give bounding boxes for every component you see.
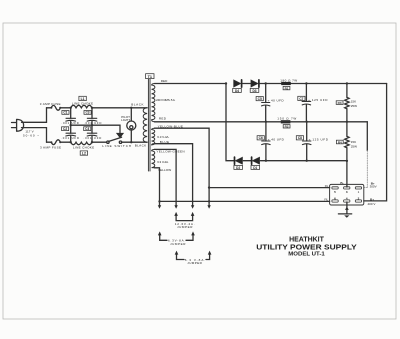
svg-text:JUMPER: JUMPER — [187, 261, 202, 265]
diode D2 — [234, 157, 243, 170]
resistor R3 (15K 25W) — [336, 84, 357, 122]
svg-text:RED: RED — [161, 79, 168, 83]
capacitor C8 — [296, 122, 328, 161]
wire: B+400 right vertical (top rail to pin 2) — [364, 84, 387, 201]
wire: bottom rail to socket pin 6 — [160, 200, 330, 202]
svg-text:25W: 25W — [351, 104, 357, 108]
svg-text:MODEL UT-1: MODEL UT-1 — [288, 252, 325, 258]
wire: left filter vertical — [70, 108, 72, 142]
wire: B- vertical to socket pin 3 — [346, 161, 348, 187]
capacitor C4 — [84, 127, 102, 140]
terminal arrow (YELLOW post) — [158, 205, 161, 208]
label 6.3V-4A (winding 2) — [157, 135, 169, 139]
svg-text:400 V: 400 V — [368, 202, 376, 206]
wire: YELLOW-GREEN lead down — [155, 149, 177, 206]
svg-text:C3: C3 — [85, 111, 89, 115]
resistor R2 (150 ohm 7W) — [277, 116, 296, 128]
wire: B+300 vertical solid part — [366, 122, 368, 151]
node: pilot light bottom — [130, 141, 132, 143]
label RED (240V top lead) — [161, 79, 168, 83]
wire: right filter vertical — [91, 108, 93, 142]
svg-text:25W: 25W — [351, 144, 357, 148]
node A: RED top / diode strings — [225, 82, 227, 84]
jumper 3 arrows and label (6.3V-8A) — [175, 251, 212, 265]
svg-text:BLACK: BLACK — [131, 102, 143, 106]
node: bottom right filter — [91, 141, 93, 143]
svg-text:C7: C7 — [299, 97, 303, 101]
node: mid rail / C7 C8 — [306, 121, 308, 123]
label YELLOW — [158, 168, 171, 172]
svg-text:LINE CHOKE: LINE CHOKE — [73, 145, 94, 149]
node: B- row / R4 — [346, 160, 348, 162]
diode D3 — [250, 80, 259, 93]
svg-text:D1: D1 — [253, 166, 257, 170]
label B- — [340, 181, 343, 185]
svg-text:3 AMP FUSE: 3 AMP FUSE — [40, 145, 61, 149]
svg-text:B-: B- — [340, 181, 343, 185]
node: pilot light top — [130, 107, 132, 109]
svg-text:T1: T1 — [148, 75, 152, 79]
node: top rail / C7 — [305, 82, 307, 84]
label B+ 400 V — [368, 198, 376, 206]
line switch SW1 — [102, 137, 131, 148]
svg-text:L1: L1 — [81, 97, 85, 101]
svg-text:BLACK: BLACK — [135, 144, 147, 148]
resistor R4 (15K 25W) — [336, 122, 357, 161]
svg-text:+ 125 UFD: + 125 UFD — [308, 98, 328, 102]
junction dots — [70, 82, 349, 202]
svg-text:240 V RMS .5 A.: 240 V RMS .5 A. — [156, 98, 176, 102]
label RED (240V bottom lead) — [159, 116, 167, 120]
svg-text:D4: D4 — [235, 89, 239, 93]
wire: RED top lead / top rail to doubler — [155, 83, 227, 85]
output socket SO1 — [330, 184, 364, 205]
svg-text:C5: C5 — [258, 97, 262, 101]
node: bottom left filter — [70, 141, 72, 143]
wire: filter midpoint rail to chassis arrow — [71, 125, 120, 133]
svg-text:C6: C6 — [259, 136, 263, 140]
label BLUE — [160, 140, 169, 144]
transformer T1 primary winding — [143, 108, 147, 142]
svg-text:+ 40 UFD: + 40 UFD — [268, 98, 285, 102]
node: YELLOW / bottom rail — [158, 200, 160, 202]
line choke L2 — [71, 142, 92, 145]
svg-text:LINE CHOKE: LINE CHOKE — [72, 102, 93, 106]
diode D1 — [251, 157, 260, 170]
wire: D4 to D3 — [242, 83, 250, 85]
svg-text:LINE SWITCH: LINE SWITCH — [102, 144, 131, 148]
svg-text:R2: R2 — [285, 125, 289, 129]
label B+ 300V — [370, 181, 377, 188]
capacitor C3 — [84, 111, 101, 126]
svg-text:R4: R4 — [338, 140, 342, 144]
node: top rail / R3 — [346, 82, 348, 84]
node: choke/C3 top — [91, 107, 93, 109]
AC plug P1 — [12, 119, 24, 131]
svg-text:15K: 15K — [351, 140, 356, 144]
capacitor C6 — [257, 122, 284, 161]
T1 secondary winding 3 (6.3V-4A lower) — [152, 149, 155, 167]
svg-text:RED: RED — [159, 116, 167, 120]
transformer T1 designator box — [146, 74, 154, 79]
svg-text:3 AMP FUSE: 3 AMP FUSE — [40, 102, 61, 106]
capacitor C1 — [61, 111, 78, 126]
node: B- row / C8 — [306, 160, 308, 162]
svg-text:180 Ω 7W: 180 Ω 7W — [280, 79, 297, 83]
wire: bottom rail filter to switch — [92, 141, 107, 143]
pin slot 3 — [344, 187, 350, 189]
wire: node A vertical (RED top to lower diode string) — [226, 84, 234, 161]
node: YELLOW-BLUE / bottom rail — [208, 200, 210, 202]
capacitor C2 — [61, 127, 79, 140]
pin slot 4 — [344, 200, 350, 202]
node: mid rail / R3 R4 — [346, 121, 348, 123]
svg-text:HEATHKIT: HEATHKIT — [289, 236, 325, 243]
svg-text:FIL: FIL — [325, 184, 329, 188]
pin slot 6 — [332, 200, 338, 202]
wire: D2 to D1 — [243, 160, 251, 162]
fuse F1 (3 AMP FUSE, top) — [47, 105, 71, 110]
svg-text:C4: C4 — [85, 127, 89, 131]
svg-text:LIGHT: LIGHT — [121, 118, 130, 122]
svg-text:D2: D2 — [236, 166, 240, 170]
svg-text:R1: R1 — [285, 86, 289, 90]
label 6.3V-4A (winding 3) — [157, 160, 169, 164]
svg-text:6.3 V-4A.: 6.3 V-4A. — [157, 160, 169, 164]
svg-text:R3: R3 — [338, 101, 342, 105]
svg-text:.001 UFD: .001 UFD — [84, 136, 102, 140]
terminal arrow (YELLOW-GREEN post) — [174, 205, 177, 208]
fuse F2 (3 AMP FUSE, bottom) — [47, 140, 71, 145]
node: mid rail / C5 C6 — [265, 121, 267, 123]
label FIL (pin 6) — [324, 198, 328, 202]
pilot light PL1 — [121, 108, 136, 142]
svg-text:JUMPER: JUMPER — [170, 242, 186, 246]
wire: RED bottom lead / mid rail — [155, 121, 266, 123]
T1 secondary winding 2 (6.3V-4A upper) — [152, 128, 155, 145]
svg-text:+ 125 UFD: + 125 UFD — [309, 137, 329, 141]
node: filter mid left — [70, 124, 72, 126]
chassis ground arrow (filter midpoint) — [116, 133, 124, 138]
label BLACK (primary bottom lead) — [135, 144, 147, 148]
wire: YELLOW lead down — [155, 168, 160, 206]
label FIL (pin 5) — [325, 184, 329, 188]
wire: D3 to C5 node / top B+ rail — [260, 83, 387, 85]
wire: filament line to socket pin 5 — [209, 187, 330, 189]
svg-text:300V: 300V — [370, 185, 377, 189]
svg-text:+ 40 UFD: + 40 UFD — [268, 137, 285, 141]
node: YELLOW-BLUE / filament line — [208, 186, 210, 188]
svg-text:6.3 V-4A.: 6.3 V-4A. — [157, 135, 169, 139]
pin slot 1 — [355, 187, 361, 189]
wire: B+300 vertical faint part to pin 1 — [364, 151, 368, 188]
label BLACK (primary top lead) — [131, 102, 143, 106]
capacitor C5 — [256, 84, 284, 122]
label YELLOW-BLUE — [158, 125, 183, 129]
capacitor C7 — [298, 84, 328, 122]
wire: YELLOW-BLUE lead down — [155, 128, 210, 206]
resistor R1 (180 ohm 7W) — [280, 79, 297, 91]
svg-text:C2: C2 — [63, 127, 67, 131]
wire: BLUE lead down — [155, 144, 193, 206]
jumper 2 arrows and label (6.3V-8A) — [158, 231, 195, 245]
wire: switch to primary bottom — [122, 141, 147, 143]
label 240 V RMS .5 A — [156, 98, 176, 102]
svg-text:150 Ω 7W: 150 Ω 7W — [277, 116, 296, 120]
label 117V 50-60 cycles — [23, 130, 39, 138]
wire: B- row D1 to corner — [260, 160, 347, 162]
pin slot 5 — [332, 187, 338, 189]
svg-text:50-60 ~: 50-60 ~ — [23, 133, 39, 137]
node: B- row / C6 — [265, 160, 267, 162]
pin slot 2 — [355, 200, 361, 202]
node: filter mid right — [91, 124, 93, 126]
jumper 1 arrows and label (12.6V-4A) — [174, 212, 194, 229]
svg-text:L2: L2 — [82, 152, 86, 156]
label YELLOW-GREEN — [156, 149, 184, 153]
transformer T1 core — [148, 79, 150, 171]
svg-text:.001 UFD: .001 UFD — [61, 136, 79, 140]
wire: top rail filter to primary — [92, 107, 147, 109]
line choke L1 — [71, 105, 92, 108]
svg-text:JUMPER: JUMPER — [177, 225, 193, 229]
wire: mid rail R2 to B+300 corner — [266, 121, 367, 123]
diode D4 — [233, 80, 242, 93]
svg-text:C8: C8 — [298, 136, 302, 140]
chassis ground under socket (pin 4) — [338, 202, 351, 218]
node: D3 cathode / C5 — [265, 82, 267, 84]
T1 secondary winding 1 (240V RMS) — [152, 84, 155, 122]
wire: plug bottom prong to riser — [22, 128, 47, 143]
svg-text:C1: C1 — [63, 111, 67, 115]
terminal arrow (YELLOW-BLUE post) — [207, 205, 210, 208]
svg-text:D3: D3 — [252, 89, 256, 93]
svg-text:15K: 15K — [351, 100, 356, 104]
terminal arrow (BLUE post) — [191, 205, 194, 208]
node: fuse/choke/C1 top — [70, 107, 72, 109]
wire: plug top prong to riser — [22, 108, 47, 123]
svg-text:FIL: FIL — [324, 198, 328, 202]
